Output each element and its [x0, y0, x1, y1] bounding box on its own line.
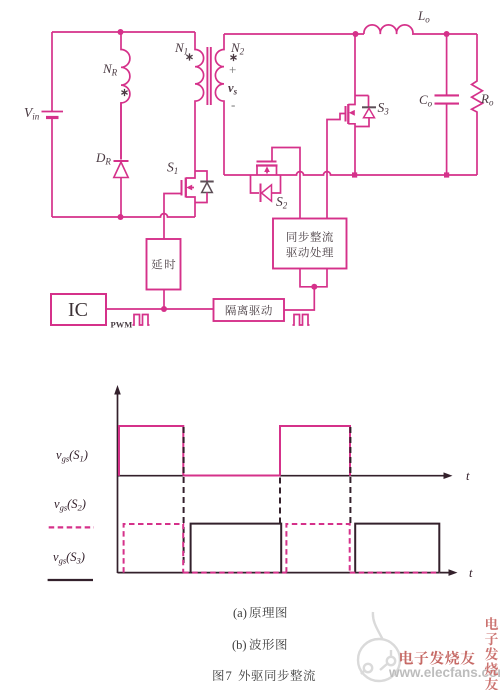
transformer core — [207, 47, 210, 105]
waveform vertical axis — [117, 392, 119, 573]
transformer T1 primary winding N1 — [195, 32, 204, 171]
guide dashed line 1 — [183, 427, 185, 563]
capacitor Co — [446, 34, 448, 175]
svg-text:-: - — [231, 97, 235, 112]
svg-text:www.elecfans.com: www.elecfans.com — [388, 665, 500, 680]
wire delay to bus — [163, 290, 165, 310]
svg-text:t: t — [469, 566, 473, 580]
MOSFET S2 — [257, 161, 277, 163]
node Lo right junction — [444, 31, 450, 37]
wire DR leads — [120, 103, 122, 217]
wire isolation out — [284, 287, 314, 310]
svg-text:+: + — [229, 62, 236, 77]
svg-text:(b): (b) — [232, 638, 247, 652]
watermark vertical text — [485, 617, 498, 690]
polarity dot N2 — [230, 54, 236, 61]
resistor Ro — [472, 34, 483, 175]
time axis 2 — [118, 572, 450, 574]
inductor NR winding — [121, 32, 130, 160]
guide dashed line 2 — [279, 478, 281, 524]
battery Vin — [42, 111, 64, 113]
wire top left — [52, 31, 195, 33]
svg-text:t: t — [466, 469, 470, 483]
polarity dot N1 — [186, 53, 192, 60]
node bus junction — [161, 306, 167, 312]
node S3 source junction — [352, 172, 357, 177]
node DR bottom junction — [118, 214, 124, 220]
body diode of S3 — [368, 96, 370, 108]
node bridge junction — [311, 284, 317, 290]
watermark logo — [358, 612, 400, 681]
box IC — [51, 294, 106, 325]
box sync rectifier drive 同步整流驱动处理 — [273, 219, 347, 269]
node Co bottom junction — [444, 172, 449, 177]
wire secondary ground rail with hops — [224, 172, 477, 175]
pwm glyph 2 — [293, 315, 310, 326]
wire sync box to S2 gate — [272, 148, 300, 219]
svg-text:vgs(S3): vgs(S3) — [53, 550, 85, 566]
trace vgs(S3) dashed magenta — [124, 524, 184, 573]
body diode of S1 — [195, 171, 207, 181]
svg-text:vgs(S1): vgs(S1) — [56, 448, 88, 464]
wire IC to isolation box — [106, 308, 214, 310]
svg-text:PWM: PWM — [111, 320, 133, 330]
pwm glyph 1 — [133, 315, 150, 326]
time axis 1 — [118, 475, 445, 477]
box isolation drive 隔离驱动 — [214, 299, 285, 321]
svg-text:(a): (a) — [233, 606, 247, 620]
box delay 延时 — [147, 239, 181, 290]
legend dashed S2 — [49, 526, 94, 528]
body diode of S2 — [251, 175, 260, 193]
wire sync box to S3 gate — [327, 114, 346, 219]
wire bottom rail with hop — [52, 214, 195, 217]
node NR top junction — [118, 29, 124, 35]
inductor Lo — [364, 25, 477, 34]
legend solid S3 — [48, 579, 93, 581]
transformer secondary winding N2 — [215, 34, 224, 175]
caption figure 7 — [213, 670, 223, 681]
svg-text:vgs(S2): vgs(S2) — [54, 497, 86, 513]
wire secondary top to Lo — [224, 33, 364, 35]
node S3 drain junction — [353, 31, 359, 37]
guide dashed line 3 — [349, 427, 351, 523]
watermark text — [400, 651, 475, 665]
trace vgs(S2) solid dark — [191, 524, 440, 573]
MOSFET S1 — [186, 171, 195, 178]
svg-text:IC: IC — [68, 299, 88, 321]
MOSFET S3 — [348, 34, 368, 105]
trace vgs(S1) — [119, 426, 350, 476]
wire left rail — [51, 32, 53, 217]
svg-text:7: 7 — [226, 669, 232, 683]
diode DR — [114, 160, 129, 162]
polarity dot NR — [121, 89, 127, 96]
wire bridge to sync box — [300, 269, 327, 287]
